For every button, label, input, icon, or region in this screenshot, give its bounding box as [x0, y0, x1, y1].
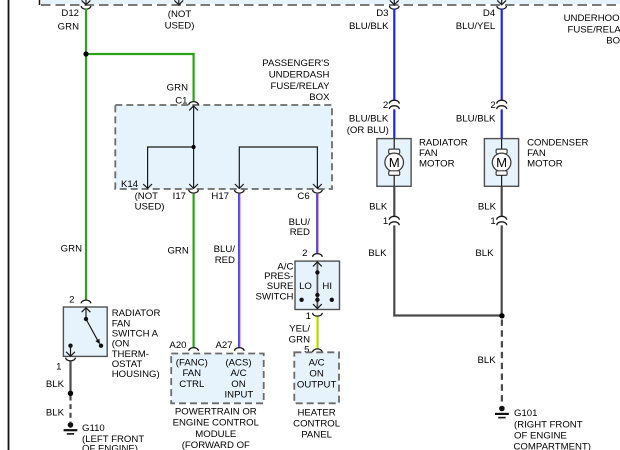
wire BLK from radiator fan motor: [393, 186, 395, 216]
svg-text:PANEL: PANEL: [301, 430, 332, 441]
svg-text:D3: D3: [376, 8, 388, 19]
svg-text:FUSE/RELAY: FUSE/RELAY: [270, 81, 330, 92]
wire BLU to radiator fan motor: [393, 109, 395, 138]
svg-text:CTRL: CTRL: [179, 379, 205, 390]
pin label (FANC) FAN CTRL: [176, 357, 208, 389]
connector D12 (pin at underhood box): [58, 0, 91, 32]
svg-text:M: M: [389, 155, 400, 170]
wire BLK from connector down and right to junction: [394, 225, 502, 315]
pressure switch contacts: [299, 262, 334, 309]
svg-text:UNDERDASH: UNDERDASH: [269, 70, 330, 81]
svg-text:(OR BLU): (OR BLU): [347, 125, 389, 136]
node junction on BLK wire: [68, 391, 73, 396]
svg-text:BLK: BLK: [46, 407, 65, 418]
svg-text:(RIGHT FRONT: (RIGHT FRONT: [514, 419, 583, 430]
motor M1 symbol: [385, 139, 404, 187]
heater panel A/C ON OUTPUT box: [294, 352, 339, 403]
inline connector 2 (condenser fan motor): [490, 100, 506, 111]
wire inside fuse box: branch to K14: [148, 147, 194, 188]
svg-text:HOUSING): HOUSING): [112, 369, 160, 380]
wire YEL/GRN from pressure switch to heater panel: [317, 317, 318, 349]
wire BLK from condenser fan motor: [501, 186, 503, 216]
svg-text:A20: A20: [169, 340, 186, 351]
wire GRN branch to C1: [86, 54, 194, 101]
svg-text:HEATER: HEATER: [297, 408, 335, 419]
ground G110: [64, 422, 145, 450]
svg-text:INPUT: INPUT: [225, 390, 254, 401]
connector D4 (pin at underhood box): [456, 0, 507, 32]
svg-text:MODULE: MODULE: [195, 429, 236, 440]
svg-text:GRN: GRN: [61, 243, 82, 254]
svg-text:CONTROL: CONTROL: [293, 419, 341, 430]
svg-text:BLK: BLK: [475, 248, 494, 259]
svg-text:D4: D4: [483, 8, 496, 19]
connector A27 (powertrain module): [216, 340, 245, 351]
svg-text:GRN: GRN: [58, 21, 79, 32]
svg-text:MOTOR: MOTOR: [527, 158, 563, 169]
label BLU/BLK (OR BLU): [347, 114, 389, 136]
svg-text:2: 2: [383, 100, 388, 111]
svg-text:2: 2: [490, 100, 495, 111]
wire BLK from switch pin 1: [69, 361, 71, 393]
condenser fan motor box: [484, 139, 518, 187]
wire BLK dashed to ground G110: [69, 396, 71, 422]
wire inside fuse box: junction down to I17: [193, 147, 195, 188]
svg-text:MOTOR: MOTOR: [419, 158, 455, 169]
svg-text:2: 2: [302, 248, 307, 259]
wire BLU from D4 to inline connector: [501, 9, 503, 101]
svg-text:G101: G101: [514, 408, 537, 419]
svg-text:M: M: [496, 155, 507, 170]
svg-text:H17: H17: [211, 191, 229, 202]
svg-text:USED): USED): [165, 20, 195, 31]
svg-text:1: 1: [56, 361, 61, 372]
label RADIATOR FAN MOTOR: [419, 137, 468, 169]
svg-text:A/C: A/C: [231, 368, 247, 379]
svg-text:GRN: GRN: [167, 82, 188, 93]
pin label A/C ON OUTPUT: [297, 357, 337, 390]
wire BLU/RED from H17 to A27: [239, 194, 240, 347]
node junction on GRN wire: [83, 51, 88, 56]
svg-text:POWERTRAIN OR: POWERTRAIN OR: [175, 406, 257, 417]
label PASSENGER'S UNDERDASH FUSE/RELAY BOX: [262, 58, 330, 103]
svg-text:LO: LO: [299, 281, 312, 292]
radiator fan switch A box: [63, 307, 107, 356]
svg-text:A/C: A/C: [309, 357, 325, 368]
connector C6 (fuse box bottom): [297, 184, 322, 202]
wire BLU from D3 to inline connector: [393, 9, 395, 101]
svg-text:BLK: BLK: [368, 248, 387, 259]
wire inside fuse box: H17 to C6 bus: [239, 147, 317, 188]
connector pin 1 of A/C pressure switch: [306, 311, 323, 322]
svg-text:RADIATOR: RADIATOR: [419, 137, 468, 148]
svg-text:BLK: BLK: [369, 201, 388, 212]
connector K14 (not used): [121, 179, 164, 213]
svg-text:1: 1: [490, 216, 495, 227]
label BLU/RED (H17 wire): [214, 244, 236, 266]
connector pin 2 of A/C pressure switch: [302, 248, 322, 259]
svg-text:ENGINE CONTROL: ENGINE CONTROL: [173, 418, 260, 429]
svg-text:2: 2: [69, 294, 74, 305]
wire BLK dashed to ground G101: [501, 320, 503, 403]
svg-text:RED: RED: [290, 227, 310, 238]
connector (NOT USED) at underhood box: [165, 0, 195, 31]
svg-text:FAN: FAN: [419, 148, 438, 159]
svg-text:PASSENGER'S: PASSENGER'S: [262, 58, 329, 69]
svg-text:COMPARTMENT): COMPARTMENT): [514, 442, 591, 450]
svg-text:FAN: FAN: [182, 368, 201, 379]
svg-text:1: 1: [306, 311, 311, 322]
connector C1 (fuse box top): [167, 82, 199, 110]
svg-text:ON: ON: [309, 368, 323, 379]
svg-text:OF ENGINE: OF ENGINE: [514, 430, 567, 441]
svg-text:1: 1: [383, 216, 388, 227]
A/C pressure switch box: [295, 261, 340, 309]
wire BLU to condenser fan motor: [501, 109, 503, 138]
svg-text:YEL/: YEL/: [289, 324, 310, 335]
inline connector 1 (condenser fan motor): [490, 216, 506, 227]
svg-text:BLK: BLK: [478, 201, 497, 212]
node junction of motor grounds: [499, 313, 504, 318]
svg-text:C1: C1: [175, 95, 187, 106]
connector A20 (powertrain module): [169, 340, 198, 351]
svg-text:I17: I17: [173, 191, 186, 202]
svg-text:SWITCH: SWITCH: [256, 291, 294, 302]
powertrain / engine control module box: [171, 354, 264, 404]
svg-text:BLU/BLK: BLU/BLK: [456, 114, 496, 125]
svg-text:BLU/BLK: BLU/BLK: [349, 114, 389, 125]
connector 5 (heater control panel): [304, 345, 322, 356]
node junction inside fuse box: [192, 145, 196, 149]
svg-text:(NOT: (NOT: [168, 9, 192, 20]
svg-text:ON: ON: [231, 379, 245, 390]
svg-text:D12: D12: [61, 8, 79, 19]
wire GRN from I17 to A20: [193, 194, 195, 347]
svg-text:GRN: GRN: [167, 246, 188, 257]
svg-text:(FANC): (FANC): [176, 357, 208, 368]
label RADIATOR FAN SWITCH A: [112, 308, 161, 380]
svg-text:(FORWARD OF: (FORWARD OF: [182, 440, 250, 450]
svg-text:OUTPUT: OUTPUT: [297, 379, 337, 390]
ground G101: [495, 406, 591, 450]
label CONDENSER FAN MOTOR: [527, 137, 588, 169]
svg-text:RED: RED: [215, 255, 235, 266]
label YEL/GRN: [289, 324, 311, 346]
underhood fuse/relay box (top, cut off): [40, 0, 620, 5]
inline connector 1 (radiator fan motor): [383, 216, 399, 227]
svg-text:A27: A27: [216, 340, 233, 351]
svg-text:BLU/: BLU/: [214, 244, 236, 255]
page left border line: [8, 0, 10, 450]
motor M2 symbol: [492, 139, 511, 187]
svg-text:BLU/YEL: BLU/YEL: [456, 21, 496, 32]
connector pin 1 of radiator fan switch: [56, 358, 75, 373]
connector H17 (fuse box bottom): [211, 184, 244, 202]
svg-text:OF ENGINE): OF ENGINE): [82, 444, 138, 450]
inline connector 2 (radiator fan motor): [383, 100, 399, 111]
wire GRN from D12 down to radiator fan switch: [85, 9, 87, 300]
wire BLU/RED from C6 to A/C pressure switch: [317, 194, 318, 254]
svg-text:FAN: FAN: [527, 148, 546, 159]
svg-text:BLU/BLK: BLU/BLK: [349, 21, 389, 32]
passenger's underdash fuse/relay box: [115, 105, 332, 189]
label POWERTRAIN OR ENGINE CONTROL MODULE: [173, 406, 260, 450]
wire inside fuse box: C1 to junction: [193, 106, 195, 147]
connector I17 (fuse box bottom): [173, 184, 199, 202]
svg-text:BLK: BLK: [477, 355, 496, 366]
label HEATER CONTROL PANEL: [293, 408, 341, 441]
svg-text:UNDERHOOD: UNDERHOOD: [564, 13, 620, 24]
label A/C PRESSURE SWITCH: [256, 261, 294, 302]
connector pin 2 of radiator fan switch: [69, 294, 91, 319]
svg-text:CONDENSER: CONDENSER: [527, 137, 588, 148]
svg-text:C6: C6: [297, 191, 309, 202]
label BLU/RED (C6 wire): [289, 217, 311, 238]
svg-text:BOX: BOX: [606, 36, 620, 47]
radiator fan motor box: [377, 139, 411, 187]
wire BLK from connector to junction: [501, 225, 503, 316]
pin label (ACS) A/C ON INPUT: [225, 357, 254, 400]
svg-text:BOX: BOX: [309, 92, 330, 103]
svg-text:G110: G110: [82, 423, 105, 434]
svg-text:USED): USED): [135, 202, 165, 213]
svg-text:(NOT: (NOT: [135, 191, 159, 202]
svg-text:BLK: BLK: [46, 379, 65, 390]
switch contacts inside radiator fan switch: [66, 317, 103, 356]
svg-text:K14: K14: [121, 179, 139, 190]
svg-text:(ACS): (ACS): [225, 357, 251, 368]
connector D3 (pin at underhood box): [349, 0, 399, 32]
label UNDERHOOD FUSE/RELAY BOX: [564, 13, 620, 47]
svg-text:HI: HI: [322, 281, 332, 292]
svg-text:FUSE/RELAY: FUSE/RELAY: [567, 24, 620, 35]
